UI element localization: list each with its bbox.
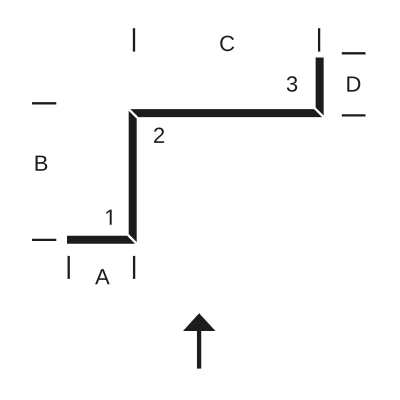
tick right lower [342, 114, 366, 116]
tick left lower [32, 239, 56, 241]
bend number 2 [154, 128, 164, 143]
label C [220, 36, 234, 52]
label A [95, 269, 110, 284]
tick right upper [342, 52, 366, 54]
bend number 1 [106, 210, 111, 225]
tick above bend 2 [133, 28, 135, 51]
tick below A left [68, 256, 70, 279]
arrow head [183, 313, 216, 331]
label B [36, 156, 48, 171]
bend seam 2 [128, 108, 137, 117]
flashing profile path (segments A-B-C-D) [67, 58, 320, 240]
bend seam 1 [128, 235, 137, 244]
tick left upper [32, 102, 56, 104]
bend seam 3 [315, 108, 324, 117]
tick above D [318, 28, 320, 51]
tick below A right [133, 256, 135, 279]
label D [347, 76, 360, 91]
arrow shaft [197, 330, 201, 369]
bend number 3 [287, 76, 297, 92]
